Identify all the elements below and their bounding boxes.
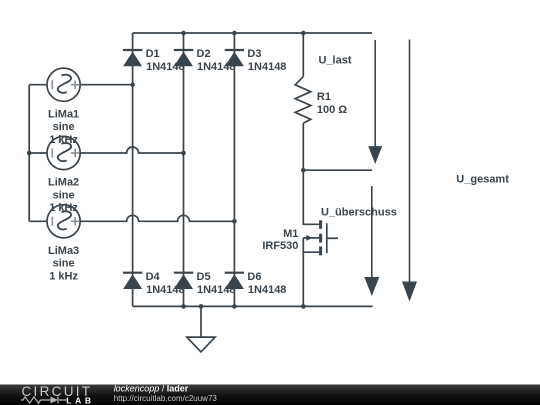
label LiMa2 sine 1 kHz (48, 177, 79, 215)
label D2 1N4148 (197, 48, 236, 73)
annotation arrow U_ueberschuss (364, 186, 379, 296)
wire bottom rail (133, 305, 373, 307)
footer bar (0, 385, 540, 405)
wire source LiMa2 left lead (29, 152, 47, 154)
svg-text:sine: sine (53, 189, 75, 201)
diode D5 (174, 273, 193, 289)
svg-text:sine: sine (53, 121, 75, 133)
junction left bus / LiMa2 (27, 151, 32, 156)
junction mid wire / R1 / M1 drain (301, 168, 306, 173)
label D6 1N4148 (247, 271, 286, 296)
diode D2 (174, 50, 193, 66)
wire source LiMa3 left lead (29, 220, 47, 222)
svg-text:1N4148: 1N4148 (248, 284, 287, 296)
svg-text:U_last: U_last (319, 55, 352, 67)
voltage source LiMa1 (47, 68, 80, 101)
label D1 1N4148 (146, 48, 185, 73)
wire mid (R1 bottom to arrows) (303, 169, 372, 171)
svg-text:LiMa1: LiMa1 (48, 108, 79, 120)
svg-text:M1: M1 (283, 228, 298, 240)
svg-text:U_gesamt: U_gesamt (456, 174, 509, 186)
svg-text:sine: sine (53, 258, 75, 270)
svg-text:http://circuitlab.com/c2uuw73: http://circuitlab.com/c2uuw73 (114, 394, 218, 403)
svg-text:1 kHz: 1 kHz (49, 271, 78, 283)
annotation arrow U_gesamt (402, 40, 417, 302)
svg-text:LAB: LAB (66, 396, 94, 405)
junction top rail / D3 (232, 31, 237, 36)
junction bottom rail / ground (199, 304, 204, 309)
annotation arrow U_last (368, 40, 382, 164)
label D3 1N4148 (247, 48, 286, 73)
resistor R1 (295, 77, 311, 124)
footer credit text (114, 384, 218, 403)
transistor M1 (NMOS, gate right) (303, 170, 338, 306)
junction bottom rail / D5 (181, 304, 186, 309)
junction top rail / D2 (181, 31, 186, 36)
svg-text:IRF530: IRF530 (262, 240, 298, 252)
wire source LiMa1 right lead (80, 84, 132, 86)
svg-text:R1: R1 (317, 91, 331, 103)
wire R1 bottom lead (302, 123, 304, 170)
ground (187, 306, 215, 352)
svg-text:D6: D6 (247, 271, 261, 283)
label R1 100 Ohm (317, 91, 347, 116)
wire source LiMa1 left lead (29, 84, 47, 86)
wire source LiMa2 right lead with hop (80, 147, 183, 153)
wire column D2/D5 (183, 33, 185, 306)
label LiMa3 sine 1 kHz (48, 245, 79, 283)
wire column D3/D6 (233, 33, 235, 306)
svg-text:D2: D2 (197, 48, 211, 60)
diode D1 (123, 50, 142, 66)
wire column D1/D4 (132, 33, 134, 306)
junction LiMa2 / D2 column (181, 151, 186, 156)
voltage source LiMa2 (47, 136, 80, 169)
svg-text:1N4148: 1N4148 (248, 61, 287, 73)
svg-text:D4: D4 (146, 271, 161, 283)
svg-text:lockencopp / lader: lockencopp / lader (114, 384, 189, 394)
svg-text:D1: D1 (146, 48, 160, 60)
junction bottom rail / D6 (232, 304, 237, 309)
wire source LiMa3 right lead with hops (80, 215, 234, 221)
voltage source LiMa3 (47, 205, 80, 238)
wire top rail (133, 32, 372, 34)
diode D3 (225, 50, 244, 66)
svg-text:D5: D5 (197, 271, 211, 283)
wire R1 top lead (302, 33, 304, 77)
svg-text:U_überschuss: U_überschuss (321, 207, 397, 219)
svg-text:100 Ω: 100 Ω (317, 104, 347, 116)
svg-text:LiMa3: LiMa3 (48, 245, 79, 257)
diode D6 (225, 273, 244, 289)
junction top rail / R1 (301, 31, 306, 36)
CircuitLab logo (21, 384, 95, 405)
junction LiMa1 / D1 column (130, 82, 135, 87)
label M1 IRF530 (262, 228, 298, 252)
label D5 1N4148 (197, 271, 236, 296)
junction LiMa3 / D3 column (232, 219, 237, 224)
label LiMa1 sine 1 kHz (48, 108, 79, 146)
wire left bus (28, 85, 30, 222)
junction bottom rail / M1 source (301, 304, 306, 309)
label D4 1N4148 (146, 271, 185, 296)
svg-text:LiMa2: LiMa2 (48, 177, 79, 189)
svg-text:D3: D3 (247, 48, 261, 60)
diode D4 (123, 273, 142, 289)
